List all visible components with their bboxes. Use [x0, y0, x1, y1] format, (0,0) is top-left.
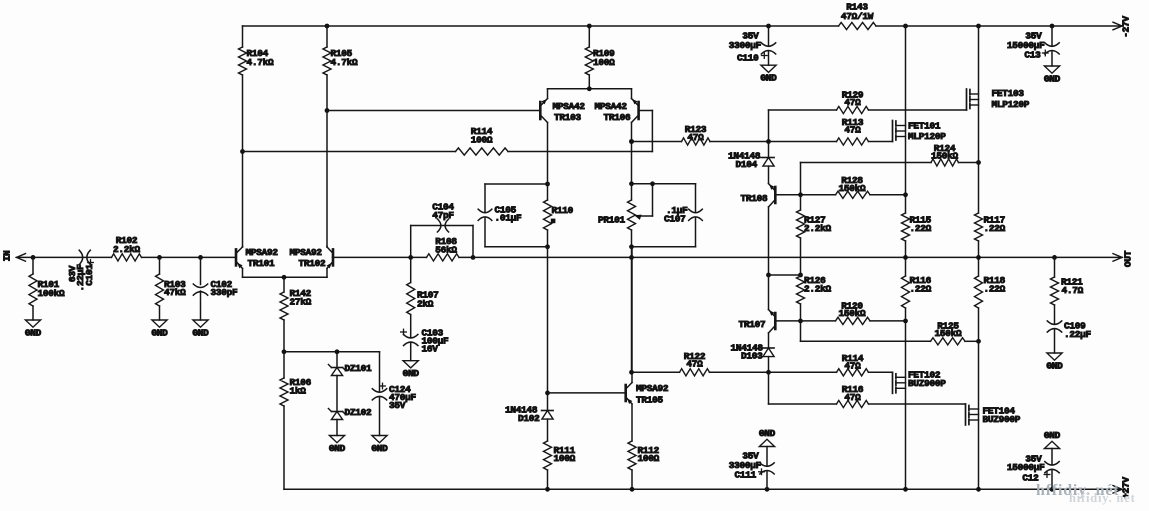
svg-text:MLP120P: MLP120P	[908, 131, 946, 142]
svg-text:47Ω: 47Ω	[844, 392, 861, 403]
svg-text:PR101: PR101	[598, 214, 626, 225]
svg-text:47Ω/1W: 47Ω/1W	[841, 11, 874, 22]
svg-text:GND: GND	[759, 428, 776, 439]
svg-text:DZ101: DZ101	[345, 363, 373, 374]
svg-text:C111: C111	[734, 470, 756, 481]
svg-text:MLP120P: MLP120P	[992, 99, 1030, 110]
svg-text:2.2kΩ: 2.2kΩ	[804, 283, 832, 294]
svg-text:.22µF: .22µF	[1064, 329, 1092, 340]
svg-text:D104: D104	[736, 159, 758, 170]
svg-text:4.7kΩ: 4.7kΩ	[331, 57, 359, 68]
svg-text:47pF: 47pF	[432, 210, 454, 221]
svg-text:IN: IN	[2, 250, 13, 261]
svg-text:hifidiy. net: hifidiy. net	[1069, 491, 1136, 505]
svg-text:GND: GND	[403, 368, 420, 379]
svg-text:MPSA92: MPSA92	[246, 247, 279, 258]
svg-text:.22Ω: .22Ω	[910, 283, 932, 294]
svg-text:GND: GND	[192, 327, 209, 338]
svg-text:47kΩ: 47kΩ	[164, 287, 186, 298]
svg-text:D102: D102	[518, 413, 540, 424]
svg-text:GND: GND	[1044, 430, 1061, 441]
svg-text:BUZ900P: BUZ900P	[908, 378, 946, 389]
svg-text:MPSA42: MPSA42	[553, 101, 586, 112]
svg-text:1kΩ: 1kΩ	[290, 386, 307, 397]
svg-text:4.7Ω: 4.7Ω	[1062, 285, 1084, 296]
svg-text:.22Ω: .22Ω	[984, 283, 1006, 294]
svg-text:47Ω: 47Ω	[687, 132, 704, 143]
svg-text:47Ω: 47Ω	[844, 360, 861, 371]
svg-text:TR101: TR101	[248, 258, 276, 269]
svg-text:MPSA92: MPSA92	[290, 247, 323, 258]
svg-text:TR106: TR106	[604, 112, 632, 123]
svg-text:-27V: -27V	[1121, 16, 1132, 38]
svg-text:FET103: FET103	[992, 88, 1025, 99]
svg-text:2kΩ: 2kΩ	[417, 299, 434, 310]
svg-text:OUT: OUT	[1123, 250, 1134, 267]
svg-text:GND: GND	[760, 73, 777, 84]
svg-text:100kΩ: 100kΩ	[38, 288, 66, 299]
svg-text:150kΩ: 150kΩ	[931, 150, 959, 161]
svg-text:MPSA92: MPSA92	[636, 383, 669, 394]
svg-text:TR105: TR105	[636, 395, 664, 406]
svg-text:C101: C101	[84, 264, 95, 286]
svg-text:35V: 35V	[389, 400, 406, 411]
svg-text:150kΩ: 150kΩ	[839, 183, 867, 194]
svg-text:47Ω: 47Ω	[686, 359, 703, 370]
svg-text:4.7kΩ: 4.7kΩ	[247, 57, 275, 68]
svg-text:TR108: TR108	[741, 193, 769, 204]
svg-text:47Ω: 47Ω	[844, 97, 861, 108]
svg-text:100Ω: 100Ω	[471, 135, 493, 146]
svg-text:47Ω: 47Ω	[844, 125, 861, 136]
svg-text:TR103: TR103	[554, 112, 582, 123]
svg-text:TR107: TR107	[739, 319, 766, 330]
svg-text:GND: GND	[1044, 73, 1061, 84]
svg-text:16V: 16V	[422, 344, 439, 355]
svg-text:TR102: TR102	[299, 258, 327, 269]
svg-text:GND: GND	[329, 443, 346, 454]
svg-text:150kΩ: 150kΩ	[935, 328, 963, 339]
svg-text:100Ω: 100Ω	[638, 453, 660, 464]
svg-text:2.2kΩ: 2.2kΩ	[804, 223, 832, 234]
svg-text:100Ω: 100Ω	[554, 453, 576, 464]
svg-text:FET101: FET101	[908, 120, 941, 131]
svg-text:GND: GND	[371, 443, 388, 454]
svg-text:100Ω: 100Ω	[593, 57, 615, 68]
svg-text:.22Ω: .22Ω	[984, 223, 1006, 234]
svg-text:C107: C107	[664, 214, 686, 225]
svg-text:DZ102: DZ102	[345, 407, 373, 418]
svg-text:BUZ900P: BUZ900P	[983, 414, 1021, 425]
svg-text:.01µF: .01µF	[495, 212, 523, 223]
svg-text:MPSA42: MPSA42	[595, 101, 628, 112]
svg-text:27kΩ: 27kΩ	[290, 297, 312, 308]
svg-text:R110: R110	[552, 205, 574, 216]
svg-text:2.2kΩ: 2.2kΩ	[113, 244, 141, 255]
svg-text:GND: GND	[1046, 360, 1063, 371]
svg-text:3300µF: 3300µF	[729, 40, 762, 51]
svg-text:330pF: 330pF	[211, 287, 239, 298]
svg-text:GND: GND	[151, 327, 168, 338]
svg-text:56kΩ: 56kΩ	[435, 245, 457, 256]
svg-text:150kΩ: 150kΩ	[839, 308, 867, 319]
svg-text:D103: D103	[741, 350, 763, 361]
svg-text:GND: GND	[25, 327, 42, 338]
svg-text:C110: C110	[737, 53, 759, 64]
svg-text:.22Ω: .22Ω	[910, 223, 932, 234]
svg-text:C13: C13	[1024, 49, 1041, 60]
